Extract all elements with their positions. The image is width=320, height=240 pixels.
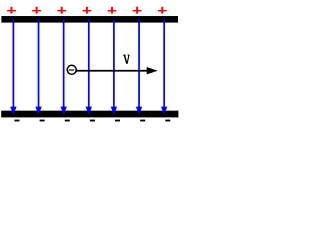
field line 5 — [111, 20, 117, 115]
minus charge 3 — [65, 120, 70, 122]
field line 2 — [35, 20, 41, 115]
minus charge 1 — [15, 120, 20, 122]
plus charge 4 — [82, 7, 91, 14]
minus charge 4 — [90, 120, 95, 122]
field line 6 — [136, 20, 142, 115]
minus charge 6 — [140, 120, 145, 122]
plus charge 6 — [133, 7, 142, 14]
field line 7 — [161, 20, 167, 115]
minus charges row under bottom plate — [15, 120, 171, 122]
negative charge particle (circle with minus sign) — [67, 65, 76, 74]
plus charge 3 — [57, 7, 66, 14]
plus charge 1 — [7, 7, 16, 14]
bottom plate (negative) — [1, 111, 178, 118]
minus charge 7 — [165, 120, 170, 122]
label v — [123, 55, 129, 64]
plus charge 5 — [108, 7, 117, 14]
electric field lines (downward arrows) — [10, 20, 167, 115]
plus charge 7 — [158, 7, 167, 14]
field line 4 — [86, 20, 92, 115]
minus charge 5 — [115, 120, 120, 122]
minus charge 2 — [40, 120, 45, 122]
velocity arrow — [76, 67, 157, 74]
plus charges row on top plate — [7, 7, 167, 14]
top plate (positive) — [1, 16, 178, 23]
field line 3 — [60, 20, 66, 115]
field line 1 — [10, 20, 16, 115]
plus charge 2 — [32, 7, 41, 14]
